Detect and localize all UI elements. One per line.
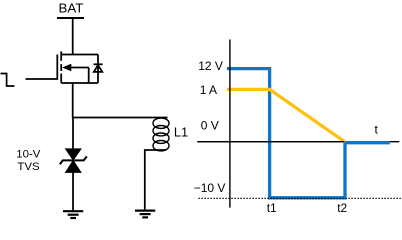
ground symbol (L1) bbox=[135, 211, 155, 218]
axis label 12 V bbox=[198, 59, 223, 73]
svg-text:t2: t2 bbox=[337, 201, 347, 215]
net label BAT bbox=[59, 0, 84, 15]
BAT power rail bar bbox=[57, 17, 84, 19]
svg-text:0 V: 0 V bbox=[201, 119, 219, 133]
component label L1 bbox=[174, 125, 188, 140]
svg-text:12 V: 12 V bbox=[198, 59, 223, 73]
wire: junction down to TVS bbox=[72, 118, 74, 150]
dashed -10 V reference line bbox=[198, 197, 401, 199]
svg-text:t1: t1 bbox=[267, 201, 277, 215]
wire: BAT rail to Q1 drain bbox=[72, 18, 74, 55]
svg-text:t: t bbox=[375, 123, 379, 137]
axis label 1 A bbox=[200, 83, 217, 97]
svg-text:−10 V: −10 V bbox=[194, 181, 226, 195]
value label 10-V TVS bbox=[16, 148, 40, 173]
wire: Q1 source down to junction bbox=[72, 83, 74, 118]
chart horizontal axis overlay left of t2 bbox=[197, 141, 344, 143]
body diode of Q1 bbox=[94, 55, 103, 84]
svg-text:L1: L1 bbox=[174, 125, 188, 140]
axis label t bbox=[375, 123, 379, 137]
time label t2 bbox=[337, 201, 347, 215]
inductor L1 coil bbox=[153, 118, 169, 151]
chart vertical axis bbox=[229, 40, 231, 208]
axis label 0 V bbox=[201, 119, 219, 133]
svg-text:BAT: BAT bbox=[59, 0, 84, 15]
wire: junction to inductor L1 bbox=[72, 117, 168, 119]
wire: L1 bottom to ground bbox=[145, 150, 166, 211]
gate drive step waveform symbol bbox=[1, 74, 15, 87]
axis label -10 V bbox=[194, 181, 226, 195]
wire: TVS to ground bbox=[72, 172, 74, 211]
TVS diode D1 (bidirectional) bbox=[60, 149, 87, 173]
svg-text:TVS: TVS bbox=[17, 161, 40, 173]
ground symbol (TVS) bbox=[63, 211, 83, 218]
wire: gate input to Q1 gate bbox=[26, 78, 57, 80]
yellow current trace bbox=[227, 89, 345, 141]
transistor Q1 (N-channel MOSFET) bbox=[57, 51, 98, 83]
time label t1 bbox=[267, 201, 277, 215]
chart horizontal axis (0 V) bbox=[197, 141, 399, 143]
svg-text:10-V: 10-V bbox=[16, 148, 40, 160]
svg-text:1 A: 1 A bbox=[200, 83, 217, 97]
blue voltage trace bbox=[227, 69, 390, 198]
